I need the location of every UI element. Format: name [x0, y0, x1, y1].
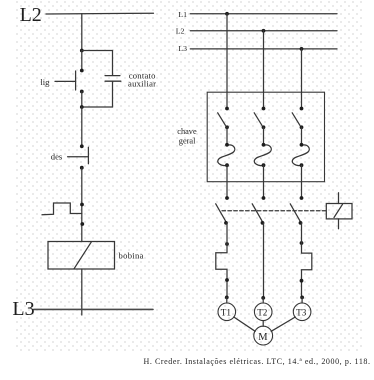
wire phase 2 to terminal — [263, 223, 265, 298]
wire des to overload contact — [81, 168, 83, 242]
wire T1 stub — [226, 297, 228, 303]
wire T2 stub — [262, 298, 264, 303]
svg-text:L1: L1 — [178, 10, 187, 19]
enclosure chave geral box — [207, 92, 324, 182]
svg-text:chave: chave — [177, 127, 197, 136]
node L3 (control return label) — [12, 298, 34, 320]
svg-text:des: des — [51, 152, 63, 162]
svg-text:L3: L3 — [12, 298, 34, 320]
wire phase 3 drop — [301, 49, 303, 92]
overload heater phase 3 — [300, 223, 312, 297]
node des bottom terminal — [80, 166, 84, 170]
svg-text:L2: L2 — [20, 4, 42, 26]
wire L2 horizontal bus — [46, 12, 154, 15]
mechanical link dashed line — [222, 210, 326, 212]
terminal T1 circle — [218, 303, 236, 321]
terminal T3 circle — [293, 303, 311, 321]
contact thermal overload FT (bump) — [42, 203, 82, 215]
wire coil box stubs — [338, 193, 340, 229]
wire T1 to M — [234, 317, 255, 331]
node des top terminal — [80, 144, 84, 148]
svg-text:lig: lig — [40, 77, 50, 87]
node tap on L1 — [225, 12, 229, 16]
pushbutton lig actuator — [55, 80, 76, 82]
label des — [51, 152, 63, 162]
label T3 — [296, 307, 307, 317]
wire T2 to M — [262, 321, 264, 327]
motor M circle — [254, 326, 273, 345]
node tap on L2 — [262, 29, 266, 33]
svg-text:M: M — [258, 332, 268, 343]
svg-text:H. Creder. Instalações elétric: H. Creder. Instalações elétricas. LTC, 1… — [144, 357, 371, 366]
node overload contact bottom terminal — [80, 222, 84, 226]
node terminal dot T1 — [225, 296, 229, 300]
fuse phase 1 — [218, 127, 235, 165]
node tap on L3 — [300, 47, 304, 51]
wire bobina to L3 — [81, 269, 83, 315]
node lig bottom terminal — [80, 90, 84, 94]
contact contato auxiliar (NO) bottom plate — [105, 80, 121, 82]
node L2 label (power) — [176, 26, 185, 35]
node phase 3 fuse terminals — [300, 143, 304, 167]
label T1 — [221, 307, 232, 317]
svg-text:T1: T1 — [221, 307, 232, 317]
node phase 3 switch terminals — [300, 107, 304, 130]
wire T3 to M — [271, 317, 295, 331]
contactor contact phase 3 — [290, 196, 303, 225]
node phase 2 switch terminals — [262, 107, 266, 130]
svg-text:T3: T3 — [296, 307, 307, 317]
node lig top terminal — [80, 69, 84, 73]
pushbutton des (NC) movable bar — [87, 147, 89, 164]
node terminal dot T3 — [300, 296, 304, 300]
svg-text:geral: geral — [179, 136, 196, 145]
wire lig to junction — [81, 92, 83, 108]
wire phase 3 fuse to contactor — [301, 165, 303, 198]
node junction top of auxiliary branch — [80, 49, 84, 53]
switch blade phase 2 — [254, 92, 263, 125]
pushbutton lig (NO) movable bar — [75, 71, 77, 90]
wire auxiliary branch top — [82, 51, 113, 76]
caption reference text — [144, 357, 371, 366]
label T2 — [257, 307, 268, 317]
svg-text:auxiliar: auxiliar — [128, 79, 156, 89]
svg-text:L2: L2 — [176, 26, 185, 35]
svg-text:T2: T2 — [257, 307, 268, 317]
node L1 label (power) — [178, 10, 187, 19]
contact contato auxiliar (NO) top plate — [105, 75, 120, 77]
wire phase 2 drop — [263, 31, 265, 92]
wire auxiliary branch bottom — [82, 81, 113, 107]
coil bobina rectangle — [48, 242, 115, 270]
label M — [258, 332, 268, 343]
node junction bottom of auxiliary branch — [80, 105, 84, 109]
fuse phase 2 — [254, 127, 271, 165]
contactor coil box — [326, 204, 352, 219]
wire junction to des contact — [81, 107, 83, 146]
overload heater phase 1 — [216, 223, 229, 297]
node overload contact top terminal — [80, 203, 84, 207]
wire main vertical from L2 — [81, 14, 83, 51]
switch blade phase 3 — [292, 92, 301, 125]
fuse phase 3 — [292, 127, 309, 165]
coil bobina diagonal — [74, 242, 92, 269]
node phase 1 fuse terminals — [225, 143, 229, 167]
wire down to lig contact — [81, 51, 83, 71]
label lig — [40, 77, 50, 87]
contactor contact phase 1 — [216, 196, 229, 225]
wire phase 1 fuse to contactor — [226, 165, 228, 198]
wire phase 2 fuse to contactor — [263, 165, 265, 198]
wire phase 1 drop — [226, 14, 228, 92]
label chave geral — [177, 127, 197, 145]
node phase 1 switch terminals — [225, 107, 229, 130]
label bobina — [119, 251, 144, 261]
contactor contact phase 2 — [252, 196, 265, 225]
node phase 2 fuse terminals — [262, 143, 266, 167]
node terminal dot T2 — [261, 296, 265, 300]
switch blade phase 1 — [218, 92, 227, 125]
wire L2 power line — [190, 30, 337, 32]
terminal T2 circle — [254, 303, 272, 321]
wire L3 power line — [190, 48, 337, 50]
wire L3 horizontal bus — [34, 308, 153, 310]
svg-text:L3: L3 — [178, 44, 187, 53]
node L3 label (power) — [178, 44, 187, 53]
svg-text:bobina: bobina — [119, 251, 144, 261]
label contato auxiliar — [128, 70, 156, 88]
pushbutton des actuator — [68, 156, 89, 158]
wire L1 power line — [190, 13, 337, 15]
wire T3 stub — [301, 297, 303, 303]
node L2 (control feed label) — [20, 4, 42, 26]
